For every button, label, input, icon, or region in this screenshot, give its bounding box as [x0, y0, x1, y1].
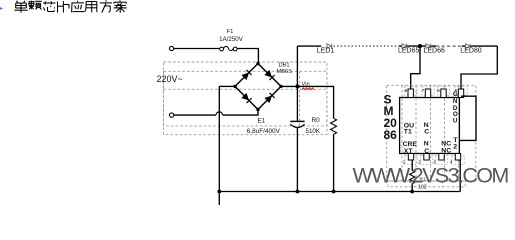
pin 7 stub (top) — [425, 89, 430, 98]
svg-text:86: 86 — [384, 128, 398, 142]
svg-text:510K: 510K — [306, 128, 321, 135]
chip dashed column 1 — [401, 85, 403, 181]
chip dashed under divider b — [441, 181, 443, 187]
node bridge right — [279, 85, 282, 88]
input dashed divider — [299, 71, 301, 126]
wire fuse to bridge top — [237, 49, 258, 64]
ground rail — [219, 191, 460, 193]
svg-text:WWW.2VS3.COM: WWW.2VS3.COM — [353, 163, 509, 187]
chip dashed column 5 — [458, 85, 460, 181]
resistor R1 — [410, 171, 415, 184]
wire LED junction to pin8 — [411, 46, 420, 89]
bridge diode D-bl — [241, 93, 251, 103]
wire OUT2 loop — [460, 96, 476, 140]
wire rail stub down — [218, 192, 220, 206]
fuse F1 — [220, 47, 237, 51]
pin 1 stub (bottom) — [408, 154, 413, 161]
svg-text:LED65: LED65 — [398, 47, 420, 54]
pin 2 stub (bottom) — [424, 154, 429, 161]
svg-text:2: 2 — [453, 144, 457, 151]
bridge DB1 diamond — [235, 64, 281, 110]
node rail-R0 — [332, 190, 336, 194]
LED LED66 — [426, 44, 431, 49]
bridge diode D-br — [264, 93, 274, 103]
chip dashed column 2 — [415, 85, 417, 181]
wire ground drop — [218, 86, 220, 191]
node LED junction — [418, 44, 422, 48]
label SM2086 — [384, 93, 398, 142]
pin stub dashed frame bottom 2 — [420, 156, 432, 165]
svg-text:T1: T1 — [404, 128, 412, 135]
pin stub dashed frame bottom 1 — [405, 156, 417, 165]
wire dotted LED1..LED65 — [334, 45, 400, 47]
svg-text:E1: E1 — [257, 117, 265, 124]
wire pin4 to rail — [459, 160, 461, 192]
title bullet — [0, 7, 3, 10]
wire terminal to fuse — [174, 48, 220, 50]
chip dashed under divider a — [413, 181, 415, 187]
pin 8 stub (top) — [408, 89, 413, 98]
pin 5 stub (top) — [458, 89, 463, 98]
wire hop over ground drop — [216, 112, 223, 115]
svg-text:NC: NC — [441, 147, 451, 154]
svg-text:LED80: LED80 — [460, 47, 482, 54]
svg-text:6.8uF/400V: 6.8uF/400V — [247, 128, 281, 135]
wire LED65 segment — [399, 45, 436, 47]
bridge diode D-tr — [264, 70, 274, 80]
svg-text:LED66: LED66 — [423, 47, 445, 54]
input dashed box outer — [164, 62, 327, 126]
chip dashed column overlay 2 — [415, 98, 417, 153]
svg-text:220V~: 220V~ — [157, 74, 183, 84]
LED LED1 — [327, 44, 332, 49]
pin 6 stub (top) — [441, 89, 446, 98]
node rail-E1 — [296, 190, 300, 194]
svg-text:MB6S: MB6S — [277, 69, 293, 75]
wire pin1 to R1 — [411, 160, 413, 171]
svg-text:N: N — [424, 141, 429, 148]
node bridge top — [256, 62, 259, 65]
chip dashed column 3 — [430, 85, 432, 181]
LED LED65 — [402, 44, 407, 49]
node rail-R1 — [410, 190, 414, 194]
wire E1 to rail — [296, 128, 298, 192]
chip dashed under-box — [388, 181, 465, 187]
svg-text:R0: R0 — [312, 117, 321, 124]
node Vin — [295, 84, 299, 88]
capacitor E1 — [290, 121, 304, 127]
pin stub dashed frame top 8 — [405, 86, 417, 95]
svg-text:8: 8 — [405, 88, 408, 93]
svg-text:C: C — [424, 148, 429, 155]
wire hop to bottom terminal — [174, 114, 216, 116]
chip dashed column overlay 4 — [444, 98, 446, 153]
pin 4 stub (bottom) — [455, 154, 460, 161]
bridge diode D-tl — [241, 70, 251, 80]
svg-text:1A/250V: 1A/250V — [219, 36, 244, 43]
wire LED80 to pin5 — [461, 46, 497, 89]
node bridge left — [233, 85, 236, 88]
pin 3 stub (bottom) — [439, 154, 444, 161]
resistor R0 — [331, 118, 337, 134]
pin stub dashed frame bottom 3 — [435, 156, 447, 165]
wire Vin to R0 — [297, 86, 333, 118]
wire LED80 segment — [462, 45, 497, 47]
chip dashed column overlay 1 — [401, 98, 403, 153]
AC terminal top — [170, 46, 174, 50]
wire Vin riser — [296, 46, 298, 86]
svg-text:LED1: LED1 — [317, 47, 335, 54]
input dashed box inner — [164, 71, 327, 134]
svg-text:C: C — [424, 128, 429, 135]
svg-text:U: U — [453, 117, 458, 124]
wire Vin to E1 top — [296, 86, 298, 121]
wire bridge bottom to AC — [223, 110, 258, 116]
wire bridge left to ground drop — [219, 85, 235, 87]
input dashed mid line — [164, 88, 327, 90]
AC terminal bottom — [169, 113, 173, 117]
chip dashed column 4 — [444, 85, 446, 181]
node bridge bottom — [256, 108, 259, 111]
chip dashed column overlay 3 — [430, 98, 432, 153]
svg-text:7: 7 — [422, 88, 425, 93]
op-amp/driver IC U1 SM2086 body — [400, 98, 460, 154]
wire Vin riser to LED1 — [297, 45, 321, 47]
svg-text:XT: XT — [404, 148, 414, 155]
svg-text:6: 6 — [437, 88, 440, 93]
Vin red squiggle — [302, 88, 314, 90]
wire dashed LED66..LED80 — [436, 45, 462, 47]
chip dashed box — [387, 85, 476, 181]
wire bridge right to Vin — [281, 85, 297, 87]
svg-text:F1: F1 — [227, 29, 234, 35]
wire R1 to rail — [411, 184, 413, 192]
pin stub dashed frame top 6 — [437, 86, 449, 95]
LED LED80 — [466, 44, 471, 49]
pin stub dashed frame top 5 — [455, 86, 467, 95]
svg-text:DB1: DB1 — [279, 62, 290, 68]
chip dashed column overlay 5 — [458, 98, 460, 153]
node rail-left — [217, 190, 221, 194]
pin stub dashed frame top 7 — [422, 86, 434, 95]
wire R0 to rail — [333, 134, 335, 191]
title text 单颗芯片应用方案 (drawn strokes) — [14, 0, 127, 13]
pin stub dashed frame bottom 4 — [452, 156, 464, 165]
